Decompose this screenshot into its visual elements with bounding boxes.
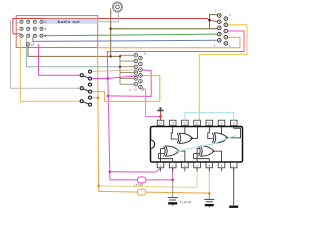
top-right connector pins [218, 14, 228, 46]
junction dots brown [110, 28, 112, 30]
wire pale yellow to pin4 [99, 168, 198, 187]
wire cyan diagonal 1 [174, 144, 214, 153]
wire SW1 throwA to R3 [90, 70, 140, 72]
switch SW1 [80, 70, 91, 80]
label highlight Audio out [43, 19, 97, 24]
wire cyan diagonal 2 [214, 136, 237, 144]
svg-text:+: + [17, 27, 19, 31]
wire magenta right net [107, 31, 244, 180]
resistor R1 pink [138, 177, 146, 183]
wire navy [33, 37, 219, 41]
wire orange to SW3 [20, 38, 81, 101]
wire SW3 throwA to orange [90, 97, 98, 99]
speaker icon [113, 2, 123, 12]
wire olive bus [111, 27, 220, 30]
svg-text:10: 10 [208, 122, 211, 126]
gate U1D wiring [194, 149, 222, 163]
gate U1A [177, 133, 193, 143]
wire orange right net [98, 37, 240, 191]
gate U1B [164, 146, 180, 156]
wire pink +5 to IC14 [140, 87, 160, 116]
IC bottom pin boxes [157, 162, 237, 167]
gate U1C wiring [208, 126, 241, 139]
wire orange rect R4 loop [90, 76, 160, 102]
IC U1 body [151, 127, 243, 163]
svg-text:13: 13 [171, 122, 174, 126]
wire orange resistor line [99, 191, 210, 193]
wire magenta to IC pin1 [110, 169, 161, 172]
svg-text:+: + [17, 20, 19, 24]
wire green [41, 34, 219, 36]
svg-text:14: 14 [159, 122, 162, 126]
power +V flag [157, 107, 163, 120]
switch SW3 [80, 96, 91, 106]
IC top pin boxes [157, 120, 237, 125]
module Audio out box [16, 16, 98, 48]
wire gray to SW2 [11, 21, 82, 89]
mid connector pins [134, 53, 142, 88]
svg-text:12: 12 [183, 122, 186, 126]
mid connector bus [120, 55, 136, 84]
module pin rows [20, 20, 43, 46]
gate U1C [212, 133, 228, 143]
wire magenta to SW1 [39, 44, 82, 75]
svg-text:+: + [17, 34, 19, 38]
IC pin lead stubs [161, 168, 234, 172]
gate U1B wiring [159, 149, 185, 163]
capacitor C1 [168, 180, 178, 206]
wire olive to pin1 [210, 15, 220, 21]
wire cyan top [174, 112, 237, 152]
wire magenta pin2 drop [172, 168, 174, 180]
gate U1D [199, 146, 215, 156]
ground pin7 [229, 168, 238, 208]
wire magenta resistor line [110, 179, 173, 181]
wire lavender audio out [42, 12, 118, 22]
wire pale green pin5 [208, 168, 210, 193]
switch SW2 [80, 83, 91, 93]
wire brown mic net [28, 9, 120, 57]
wire teal to bus [26, 38, 120, 67]
wire magenta rect R3 loop [108, 70, 151, 97]
resistor R2 orange [138, 189, 146, 195]
gate U1A wiring [171, 126, 197, 139]
wire red bus [13, 19, 219, 34]
svg-text:Audio out: Audio out [58, 20, 81, 24]
svg-text:13: 13 [31, 43, 35, 47]
svg-text:1 x 10 µF: 1 x 10 µF [180, 200, 192, 204]
capacitor C2 [204, 193, 214, 207]
wire magenta SW1 out to R4 [90, 76, 140, 79]
wire yellow net [199, 25, 247, 120]
